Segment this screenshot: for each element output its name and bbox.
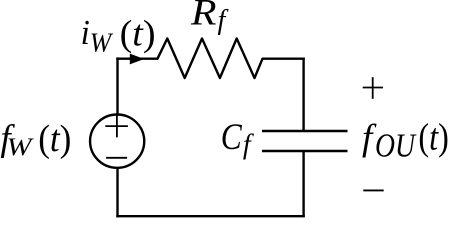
svg-text:R: R: [190, 0, 217, 34]
wire bottom horizontal: [116, 215, 304, 217]
svg-text:W: W: [90, 27, 114, 57]
label R_f: [190, 0, 229, 36]
voltage source f_W(t): [90, 114, 144, 167]
svg-text:i: i: [81, 13, 90, 52]
svg-text:f: f: [243, 130, 254, 161]
wire right vertical lower: [302, 151, 304, 217]
current arrow i_W(t): [130, 54, 144, 65]
capacitor C_f bottom plate: [262, 150, 348, 152]
wire left vertical lower: [116, 169, 118, 218]
svg-text:(t): (t): [418, 117, 448, 159]
label f_W(t): [0, 118, 71, 161]
resistor R_f: [158, 39, 263, 79]
wire top horizontal left: [116, 58, 158, 60]
svg-text:W: W: [7, 134, 35, 161]
svg-text:(t): (t): [38, 118, 71, 160]
wire top horizontal right: [262, 58, 305, 60]
label − output polarity: [363, 189, 383, 191]
svg-text:OU: OU: [375, 128, 417, 165]
label + output polarity: [363, 77, 383, 99]
wire right vertical upper: [302, 58, 304, 132]
label f_OU(t): [362, 117, 449, 165]
label i_W(t): [81, 13, 156, 58]
svg-text:C: C: [221, 117, 243, 158]
label C_f: [221, 117, 254, 160]
svg-text:(t): (t): [120, 13, 156, 54]
wire left vertical upper: [116, 57, 118, 113]
svg-text:f: f: [218, 5, 229, 36]
capacitor C_f top plate: [262, 130, 348, 132]
